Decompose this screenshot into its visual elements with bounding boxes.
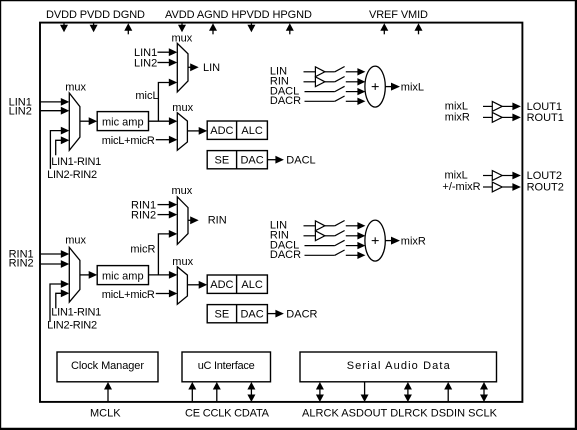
svg-text:LIN1-RIN1: LIN1-RIN1 xyxy=(51,307,101,319)
svg-text:mux: mux xyxy=(65,81,86,93)
svg-text:DACR: DACR xyxy=(270,249,301,261)
svg-text:MCLK: MCLK xyxy=(90,407,121,419)
svg-text:DACR: DACR xyxy=(270,95,301,107)
svg-text:LOUT2: LOUT2 xyxy=(527,170,562,182)
svg-text:uC Interface: uC Interface xyxy=(198,360,255,372)
svg-text:mic amp: mic amp xyxy=(102,270,144,282)
svg-text:LIN2: LIN2 xyxy=(134,57,157,69)
svg-text:mixL: mixL xyxy=(401,82,424,94)
svg-text:SE: SE xyxy=(215,309,230,321)
svg-text:+/-mixR: +/-mixR xyxy=(442,181,480,193)
svg-text:LIN: LIN xyxy=(203,62,220,74)
svg-text:DACL: DACL xyxy=(286,155,315,167)
svg-text:Clock Manager: Clock Manager xyxy=(71,360,144,372)
svg-text:ALC: ALC xyxy=(241,279,262,291)
svg-text:LIN1-RIN1: LIN1-RIN1 xyxy=(51,156,101,168)
svg-text:LIN2-RIN2: LIN2-RIN2 xyxy=(47,320,97,332)
svg-text:DVDD PVDD DGND: DVDD PVDD DGND xyxy=(46,9,145,21)
svg-text:AVDD AGND HPVDD HPGND: AVDD AGND HPVDD HPGND xyxy=(165,9,312,21)
svg-text:mic amp: mic amp xyxy=(102,116,144,128)
svg-text:ALC: ALC xyxy=(241,125,262,137)
svg-text:CE CCLK CDATA: CE CCLK CDATA xyxy=(185,407,270,419)
svg-text:mux: mux xyxy=(172,256,193,268)
svg-text:mixL: mixL xyxy=(445,170,468,182)
svg-text:mux: mux xyxy=(172,185,193,197)
svg-text:DACR: DACR xyxy=(286,309,317,321)
svg-text:mux: mux xyxy=(172,102,193,114)
svg-text:Serial Audio Data: Serial Audio Data xyxy=(347,360,451,372)
svg-text:RIN2: RIN2 xyxy=(9,258,34,270)
svg-text:micL+micR: micL+micR xyxy=(102,135,155,147)
svg-text:mixR: mixR xyxy=(401,236,426,248)
svg-text:DAC: DAC xyxy=(240,155,263,167)
svg-text:ALRCK ASDOUT DLRCK DSDIN SCLK: ALRCK ASDOUT DLRCK DSDIN SCLK xyxy=(302,407,498,419)
svg-text:DAC: DAC xyxy=(240,309,263,321)
svg-text:SE: SE xyxy=(215,155,230,167)
svg-text:mux: mux xyxy=(65,235,86,247)
svg-text:ROUT2: ROUT2 xyxy=(527,181,564,193)
svg-text:ROUT1: ROUT1 xyxy=(527,112,564,124)
svg-text:VREF VMID: VREF VMID xyxy=(369,9,428,21)
svg-text:ADC: ADC xyxy=(210,125,233,137)
svg-text:RIN2: RIN2 xyxy=(131,210,156,222)
svg-text:LIN2-RIN2: LIN2-RIN2 xyxy=(47,169,97,181)
svg-text:micL+micR: micL+micR xyxy=(102,289,155,301)
svg-text:mixR: mixR xyxy=(445,112,470,124)
svg-text:micR: micR xyxy=(130,244,155,256)
svg-text:RIN: RIN xyxy=(208,215,227,227)
svg-text:micL: micL xyxy=(135,90,158,102)
svg-text:ADC: ADC xyxy=(210,279,233,291)
svg-text:mux: mux xyxy=(172,32,193,44)
svg-text:LIN2: LIN2 xyxy=(9,106,32,118)
